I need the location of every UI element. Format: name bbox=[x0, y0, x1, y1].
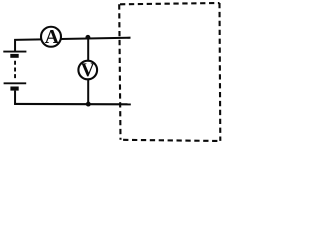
voltmeter U2 bbox=[78, 61, 97, 80]
dashed box top edge bbox=[120, 3, 220, 4]
dashed box bottom edge bbox=[121, 140, 221, 141]
ammeter U1 bbox=[41, 27, 61, 47]
wire: voltmeter down to bottom rail bbox=[87, 79, 89, 104]
battery B1 dashed link (additional cells) bbox=[14, 61, 16, 78]
battery B1 cell 2 positive plate (long thin) bbox=[4, 82, 27, 84]
wire: bottom rail from battery to dashed box bbox=[14, 103, 131, 106]
node: bottom junction dot bbox=[86, 102, 91, 107]
battery B1 cell 1 negative plate (short thick) bbox=[10, 54, 18, 58]
battery B1 cell 2 negative plate (short thick) bbox=[10, 87, 18, 91]
battery B1 cell 1 positive plate (long thin) bbox=[3, 51, 26, 53]
dashed box left edge bbox=[119, 4, 120, 140]
node: top junction dot bbox=[85, 35, 90, 40]
dashed box right edge bbox=[218, 3, 221, 141]
wire: battery positive up and right to ammeter bbox=[14, 39, 42, 51]
wire: top junction down to voltmeter bbox=[87, 38, 89, 62]
wire: ammeter to dashed box (top rail) bbox=[61, 38, 131, 39]
wire: battery negative down to bottom rail bbox=[14, 91, 16, 105]
